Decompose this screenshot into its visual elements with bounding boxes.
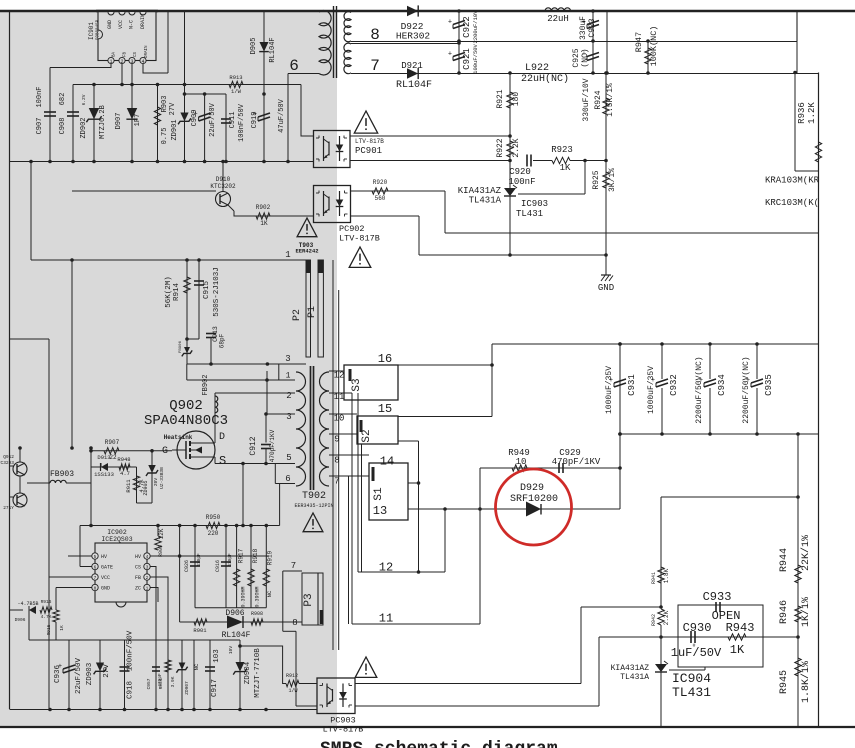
svg-text:2: 2 [286, 391, 291, 401]
svg-text:4: 4 [146, 554, 149, 560]
svg-text:27V: 27V [169, 102, 177, 115]
svg-text:T902: T902 [302, 491, 326, 502]
svg-text:271Y: 271Y [3, 505, 14, 511]
svg-text:ZD901: ZD901 [171, 119, 179, 140]
svg-text:C920: C920 [509, 167, 531, 177]
svg-text:C909: C909 [191, 110, 199, 127]
svg-text:1.8K: 1.8K [663, 568, 670, 583]
svg-text:22uF/50V: 22uF/50V [75, 658, 83, 695]
svg-text:RL104F: RL104F [396, 80, 432, 91]
svg-text:6.2V: 6.2V [81, 94, 87, 105]
svg-text:SMPS schematic diagram: SMPS schematic diagram [320, 740, 558, 748]
svg-text:NC: NC [266, 590, 273, 597]
svg-text:IC903: IC903 [521, 199, 548, 209]
svg-text:3: 3 [286, 412, 291, 422]
svg-text:1.5K/1%: 1.5K/1% [606, 83, 615, 117]
svg-text:DRAIN: DRAIN [145, 45, 149, 58]
svg-text:56K(2M): 56K(2M) [165, 276, 173, 308]
svg-text:R942: R942 [651, 614, 657, 626]
svg-text:IC901: IC901 [88, 22, 95, 40]
svg-text:HER302: HER302 [396, 31, 431, 42]
svg-text:C917: C917 [211, 679, 219, 697]
svg-text:1K/1%: 1K/1% [800, 597, 812, 627]
svg-text:C935: C935 [764, 374, 774, 396]
svg-text:C915: C915 [203, 281, 211, 300]
svg-text:C921: C921 [462, 48, 472, 70]
svg-text:C934: C934 [717, 374, 727, 396]
svg-text:BA: BA [113, 51, 117, 57]
svg-text:R914: R914 [173, 283, 181, 302]
svg-text:R923: R923 [551, 145, 573, 155]
svg-text:100uF/50V: 100uF/50V [472, 43, 479, 73]
svg-text:C930: C930 [683, 621, 712, 635]
svg-text:68pF: 68pF [219, 333, 226, 348]
svg-text:P2: P2 [292, 309, 303, 321]
svg-text:MTZJ6.2B: MTZJ6.2B [99, 105, 107, 139]
svg-text:2200uF/10V: 2200uF/10V [472, 10, 479, 44]
svg-text:MTZJT-7710B: MTZJT-7710B [254, 648, 262, 698]
svg-text:7: 7 [291, 561, 296, 571]
svg-text:100K(NC): 100K(NC) [649, 26, 659, 67]
svg-text:2: 2 [146, 575, 149, 581]
svg-text:R941: R941 [651, 572, 657, 584]
svg-text:14: 14 [380, 455, 394, 469]
svg-text:22uH: 22uH [547, 14, 569, 24]
svg-text:10: 10 [516, 457, 527, 467]
svg-text:DDB0045R: DDB0045R [97, 19, 101, 40]
svg-text:+: + [448, 51, 452, 59]
svg-text:7: 7 [334, 477, 339, 487]
svg-text:1: 1 [286, 372, 291, 381]
svg-text:TL431A: TL431A [469, 196, 502, 206]
svg-text:C918: C918 [127, 681, 135, 699]
svg-text:R909: R909 [158, 545, 164, 557]
svg-text:R911: R911 [125, 479, 132, 493]
svg-text:+: + [448, 19, 452, 27]
svg-text:1K: 1K [560, 163, 571, 173]
svg-text:2.2K: 2.2K [663, 610, 670, 625]
svg-text:1uF/50V: 1uF/50V [671, 646, 722, 660]
svg-text:KIA431AZ: KIA431AZ [458, 186, 502, 196]
svg-text:C916: C916 [215, 560, 221, 572]
svg-text:PC902: PC902 [339, 224, 365, 234]
svg-text:103: 103 [213, 649, 221, 663]
svg-text:C923: C923 [588, 18, 597, 37]
svg-text:6: 6 [94, 565, 97, 571]
svg-text:C912: C912 [249, 436, 258, 455]
svg-text:S2: S2 [361, 429, 373, 442]
svg-text:1: 1 [285, 250, 290, 260]
svg-text:R907: R907 [105, 439, 120, 446]
svg-text:180: 180 [512, 92, 521, 107]
svg-text:FB: FB [135, 575, 141, 581]
svg-text:EER3435-12PIN: EER3435-12PIN [294, 503, 333, 509]
svg-text:0.39OHM: 0.39OHM [241, 586, 247, 607]
svg-text:100nF: 100nF [508, 177, 535, 187]
svg-text:RL104F: RL104F [222, 631, 251, 640]
svg-text:R915: R915 [46, 624, 52, 635]
svg-text:DRAIN: DRAIN [140, 14, 146, 29]
svg-text:2200uF/50V(NC): 2200uF/50V(NC) [695, 356, 704, 423]
svg-text:R901: R901 [193, 627, 207, 634]
svg-text:C932: C932 [669, 374, 679, 396]
svg-text:D906: D906 [225, 609, 244, 618]
svg-text:R903: R903 [161, 96, 169, 113]
svg-text:GATE: GATE [101, 565, 113, 571]
svg-text:12K: 12K [158, 528, 165, 539]
svg-text:P1: P1 [307, 306, 318, 318]
svg-text:4.7: 4.7 [120, 470, 130, 477]
svg-text:FB: FB [124, 51, 128, 57]
svg-text:R921: R921 [496, 89, 505, 108]
svg-text:330uF: 330uF [579, 16, 588, 40]
svg-text:D929: D929 [520, 483, 544, 494]
svg-text:3: 3 [285, 354, 290, 364]
svg-text:R954: R954 [158, 678, 164, 689]
svg-text:20V: 20V [153, 478, 159, 486]
svg-text:(NC): (NC) [581, 48, 590, 67]
svg-text:2.2K: 2.2K [512, 138, 521, 157]
svg-text:D: D [219, 432, 225, 443]
svg-text:10: 10 [334, 414, 345, 424]
svg-text:0.39OHM: 0.39OHM [255, 586, 261, 607]
svg-text:IC904: IC904 [672, 671, 711, 686]
svg-text:S: S [219, 454, 226, 468]
svg-text:KRC103M(K(: KRC103M(K( [765, 198, 819, 208]
svg-text:C922: C922 [462, 16, 472, 38]
svg-text:D913: D913 [97, 454, 110, 461]
svg-text:R916: R916 [41, 599, 52, 605]
svg-text:12: 12 [334, 371, 345, 381]
svg-text:11: 11 [379, 612, 393, 626]
svg-text:22uH(NC): 22uH(NC) [521, 73, 569, 85]
svg-text:1K: 1K [59, 625, 65, 631]
svg-text:ZC: ZC [135, 586, 141, 592]
svg-text:KTC3203: KTC3203 [0, 460, 14, 466]
svg-text:1SS133: 1SS133 [94, 471, 114, 478]
svg-text:100nF: 100nF [36, 86, 44, 107]
svg-text:KIA431AZ: KIA431AZ [611, 664, 650, 673]
svg-text:1/W: 1/W [231, 88, 242, 95]
svg-text:C933: C933 [703, 590, 732, 604]
svg-text:EER4242: EER4242 [295, 248, 318, 255]
svg-text:8: 8 [292, 618, 297, 628]
svg-text:3.9K: 3.9K [170, 676, 176, 687]
svg-text:22K/1%: 22K/1% [800, 535, 812, 571]
svg-text:6: 6 [289, 57, 299, 75]
svg-text:1000uF/35V: 1000uF/35V [647, 366, 656, 414]
svg-text:1F7: 1F7 [134, 114, 142, 127]
svg-text:2200uF/50V(NC): 2200uF/50V(NC) [742, 356, 751, 423]
svg-text:RL104F: RL104F [269, 37, 277, 62]
svg-text:TL431: TL431 [672, 685, 711, 700]
svg-text:100nF/50V: 100nF/50V [127, 630, 135, 671]
svg-text:LTV-817B: LTV-817B [355, 138, 384, 145]
svg-text:R950: R950 [206, 514, 221, 521]
svg-text:C911: C911 [229, 112, 237, 129]
svg-text:Q912: Q912 [3, 454, 14, 460]
svg-text:R936: R936 [797, 102, 807, 124]
svg-text:8: 8 [94, 586, 97, 592]
svg-text:S3: S3 [351, 378, 363, 391]
svg-text:GND: GND [107, 20, 113, 29]
svg-text:1K: 1K [260, 220, 268, 227]
svg-text:-4.7B5B: -4.7B5B [17, 601, 38, 607]
svg-text:10V: 10V [228, 646, 234, 654]
svg-text:682: 682 [59, 93, 67, 106]
svg-text:C907: C907 [36, 118, 44, 135]
svg-text:1000uF/35V: 1000uF/35V [605, 366, 614, 414]
svg-text:Heatsink: Heatsink [164, 434, 193, 441]
svg-text:CS: CS [134, 51, 138, 57]
svg-text:GND: GND [598, 283, 614, 293]
svg-text:HV: HV [135, 554, 141, 560]
svg-text:KRA103M(KR: KRA103M(KR [765, 176, 820, 186]
svg-text:TL431: TL431 [516, 209, 543, 219]
svg-text:C931: C931 [627, 374, 637, 396]
svg-text:C908: C908 [59, 118, 67, 135]
svg-text:1/W: 1/W [288, 688, 297, 694]
svg-text:470pF: 470pF [227, 553, 233, 567]
svg-text:C936: C936 [54, 665, 62, 684]
svg-text:1.8K/1%: 1.8K/1% [800, 661, 812, 703]
svg-text:R917: R917 [238, 548, 245, 563]
svg-text:330uF/10V: 330uF/10V [582, 78, 591, 121]
svg-text:1: 1 [146, 586, 149, 592]
svg-text:7: 7 [94, 575, 97, 581]
svg-text:530S-2J103J: 530S-2J103J [213, 267, 221, 317]
svg-text:R924: R924 [594, 90, 603, 109]
svg-text:PC901: PC901 [355, 146, 382, 156]
svg-text:ZD905: ZD905 [143, 480, 149, 495]
svg-text:NC: NC [193, 663, 200, 670]
svg-text:C925: C925 [572, 48, 581, 67]
svg-text:D905: D905 [250, 38, 258, 55]
svg-text:C926: C926 [184, 560, 190, 572]
svg-text:4.7K: 4.7K [41, 614, 52, 620]
svg-text:R943: R943 [726, 621, 755, 635]
svg-text:L922: L922 [525, 63, 549, 74]
svg-text:ZD907: ZD907 [184, 681, 190, 695]
svg-text:47uF/50V: 47uF/50V [278, 98, 286, 132]
svg-text:R908: R908 [251, 611, 263, 617]
svg-text:470pF: 470pF [196, 553, 202, 567]
svg-text:27V: 27V [103, 664, 111, 678]
svg-text:R913: R913 [229, 74, 242, 81]
svg-text:LTV-817B: LTV-817B [323, 725, 364, 735]
svg-text:Q902: Q902 [169, 398, 203, 414]
svg-text:6: 6 [285, 474, 290, 484]
svg-text:R920: R920 [373, 179, 388, 186]
svg-text:ICE2QS03: ICE2QS03 [101, 536, 132, 543]
svg-text:VCC: VCC [101, 575, 110, 581]
svg-text:CS: CS [135, 565, 141, 571]
svg-text:TL431A: TL431A [620, 673, 649, 682]
svg-text:ZD904: ZD904 [244, 661, 252, 684]
svg-text:FB902: FB902 [202, 374, 210, 395]
svg-text:7: 7 [370, 57, 380, 75]
svg-text:100nF/50V: 100nF/50V [238, 103, 246, 142]
svg-text:LTV-817B: LTV-817B [339, 234, 380, 244]
svg-text:1.2K: 1.2K [807, 102, 817, 124]
svg-text:3K/1%: 3K/1% [608, 168, 617, 192]
svg-text:470pF/1KV: 470pF/1KV [552, 457, 601, 467]
svg-text:ZD902: ZD902 [80, 117, 88, 138]
svg-text:S1: S1 [373, 487, 385, 501]
svg-text:R919: R919 [267, 550, 274, 565]
svg-text:R945: R945 [779, 670, 790, 694]
svg-text:5: 5 [286, 453, 291, 463]
svg-text:16: 16 [378, 352, 392, 366]
svg-text:C957: C957 [146, 678, 152, 689]
svg-text:8: 8 [334, 456, 339, 466]
svg-text:1K: 1K [730, 643, 745, 657]
svg-text:220: 220 [208, 530, 219, 537]
svg-text:IC902: IC902 [107, 529, 127, 536]
svg-text:R946: R946 [779, 600, 790, 624]
svg-text:GND: GND [101, 586, 110, 592]
svg-text:HV: HV [101, 554, 107, 560]
svg-text:0.75: 0.75 [161, 128, 169, 145]
svg-text:FB903: FB903 [50, 470, 74, 479]
svg-text:D921: D921 [401, 61, 423, 71]
svg-text:3: 3 [146, 565, 149, 571]
svg-text:R947: R947 [634, 32, 644, 52]
svg-text:R922: R922 [496, 138, 505, 157]
svg-text:C919: C919 [251, 112, 259, 129]
svg-text:R944: R944 [779, 548, 790, 572]
svg-text:9: 9 [334, 435, 339, 445]
svg-text:G: G [162, 446, 168, 457]
svg-text:13: 13 [373, 504, 387, 518]
svg-text:FB906: FB906 [179, 340, 183, 353]
svg-text:560: 560 [375, 195, 386, 202]
svg-text:P3: P3 [303, 593, 315, 606]
svg-text:ZD903: ZD903 [86, 662, 94, 685]
svg-text:22uF/50V: 22uF/50V [209, 102, 217, 136]
svg-text:15: 15 [378, 402, 392, 416]
svg-text:UZ-33B3B: UZ-33B3B [159, 467, 165, 489]
svg-text:R948: R948 [117, 456, 130, 463]
svg-text:D907: D907 [115, 113, 123, 130]
svg-text:R918: R918 [252, 548, 259, 563]
svg-text:8: 8 [370, 26, 380, 44]
svg-text:VCC: VCC [118, 20, 124, 29]
svg-text:470pF/1KV: 470pF/1KV [269, 429, 276, 462]
svg-text:12: 12 [379, 561, 393, 575]
svg-text:D906: D906 [15, 617, 26, 623]
svg-text:R912: R912 [286, 673, 298, 679]
svg-text:R925: R925 [592, 170, 601, 189]
svg-text:SRF10200: SRF10200 [510, 494, 558, 505]
svg-text:5: 5 [94, 554, 97, 560]
svg-text:N-C: N-C [129, 20, 135, 29]
svg-text:R902: R902 [256, 204, 271, 211]
